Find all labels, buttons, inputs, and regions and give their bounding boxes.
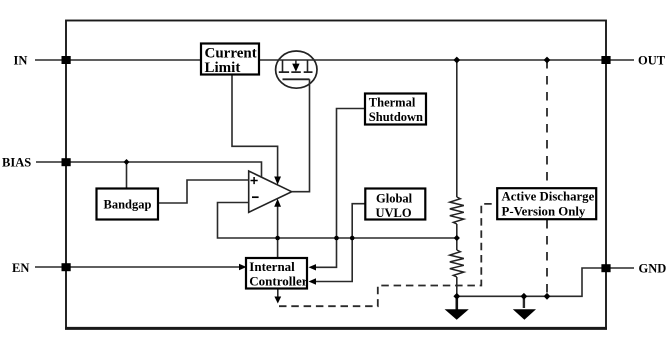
node junction divider bottom: [453, 293, 460, 300]
wire dashed OUT discharge path: [546, 60, 548, 296]
wire ground symbol 2 stem top: [523, 296, 525, 308]
svg-text:Controller: Controller: [249, 274, 307, 289]
svg-text:Global: Global: [376, 192, 413, 206]
wire controller discharge stem: [277, 289, 279, 298]
bandgap box U4: [97, 189, 159, 220]
transistor Q1 left contact: [282, 60, 284, 72]
node junction OUT-divider: [453, 57, 460, 64]
wire GND stub: [606, 267, 634, 269]
wire OUT stub: [606, 59, 634, 61]
wire current limit output to op-amp top: [232, 75, 278, 178]
node EN pin: [62, 263, 71, 271]
transistor Q1 gate bar: [283, 78, 310, 80]
arrowhead EN into controller: [239, 264, 247, 270]
wire divider bottom to ground node: [456, 277, 458, 296]
resistor R2: [450, 250, 464, 277]
global UVLO box U3: [365, 189, 425, 220]
svg-text:EN: EN: [12, 261, 29, 275]
op-amp - input sign: [252, 196, 259, 198]
transistor Q1 channel segments: [279, 71, 313, 73]
svg-text:IN: IN: [14, 54, 28, 68]
op-amp U1 body: [249, 171, 292, 212]
wire ground return to GND pin: [457, 268, 606, 296]
op-amp + input sign: [251, 177, 258, 184]
node junction UVLO-line at feedback: [350, 236, 355, 241]
svg-text:Active Discharge: Active Discharge: [502, 190, 595, 204]
transistor Q1 body circle: [276, 51, 317, 88]
svg-text:Thermal: Thermal: [369, 96, 416, 110]
node junction ground2: [521, 293, 528, 300]
wire global UVLO to controller: [312, 204, 365, 282]
node junction divider mid: [454, 235, 460, 241]
node junction dashed end: [544, 293, 551, 300]
transistor Q1 body arrow: [295, 60, 297, 64]
ground symbol 2: [513, 309, 536, 320]
wire thermal shutdown to controller: [312, 109, 365, 268]
svg-text:GND: GND: [639, 262, 667, 276]
node junction thermal-line at feedback: [334, 236, 339, 241]
wire bandgap output to op-amp + input: [158, 180, 248, 203]
thermal shutdown box U2: [365, 94, 426, 125]
wire op-amp output to Q1 gate: [292, 79, 310, 191]
svg-text:Limit: Limit: [205, 60, 241, 76]
wire internal controller to op-amp bottom: [277, 204, 279, 258]
wire bandgap tap from BIAS: [126, 162, 128, 190]
wire dashed controller to active discharge: [279, 204, 497, 306]
node junction controller-line at feedback: [275, 236, 280, 241]
svg-text:Internal: Internal: [249, 259, 295, 274]
wire between divider resistors: [456, 224, 458, 250]
svg-text:BIAS: BIAS: [2, 156, 31, 170]
node GND pin: [601, 264, 610, 272]
svg-text:Shutdown: Shutdown: [369, 110, 423, 124]
active discharge box U6: [497, 188, 596, 219]
arrowhead controller discharge down: [274, 297, 281, 304]
chip outer border: [66, 21, 606, 329]
node junction BIAS-bandgap: [124, 159, 130, 165]
transistor Q1 right contact: [307, 60, 309, 72]
wire feedback from divider node to op-amp - input: [218, 203, 457, 239]
svg-text:UVLO: UVLO: [376, 206, 412, 220]
wire BIAS rail: [36, 162, 262, 177]
wire IN rail (IN pin to OUT pin through Q1): [35, 59, 606, 61]
wire EN rail to controller: [35, 266, 241, 268]
arrowhead into op-amp bottom (from controller): [274, 199, 281, 207]
svg-text:OUT: OUT: [638, 54, 666, 68]
current limit box: [201, 44, 259, 75]
node IN pin: [62, 56, 71, 64]
node OUT pin: [601, 56, 610, 64]
wire OUT rail down to divider: [456, 60, 458, 197]
internal controller box U5: [246, 258, 307, 289]
arrowhead into op-amp top (from current limit): [274, 177, 281, 185]
resistor R1: [450, 197, 464, 224]
bottom border thick: [65, 327, 607, 330]
svg-text:Bandgap: Bandgap: [104, 198, 152, 212]
node BIAS pin: [62, 158, 71, 166]
node junction OUT-dashed: [544, 57, 551, 64]
ground symbol 1: [455, 296, 458, 309]
svg-text:P-Version Only: P-Version Only: [502, 205, 586, 219]
arrowhead thermal line into controller: [309, 264, 317, 270]
arrowhead UVLO line into controller: [309, 278, 317, 284]
